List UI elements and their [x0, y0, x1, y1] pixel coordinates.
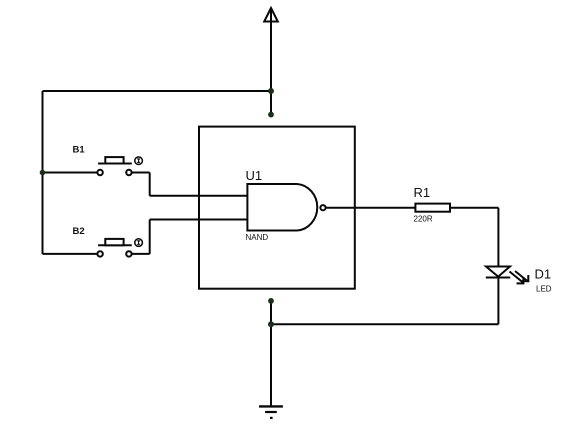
svg-text:LED: LED	[536, 285, 552, 294]
svg-text:R1: R1	[414, 185, 431, 200]
svg-text:B1: B1	[73, 144, 86, 155]
svg-text:NAND: NAND	[246, 233, 269, 242]
svg-text:D1: D1	[535, 266, 552, 281]
svg-text:U1: U1	[246, 168, 263, 183]
svg-text:220R: 220R	[414, 215, 433, 224]
svg-text:B2: B2	[73, 226, 85, 237]
